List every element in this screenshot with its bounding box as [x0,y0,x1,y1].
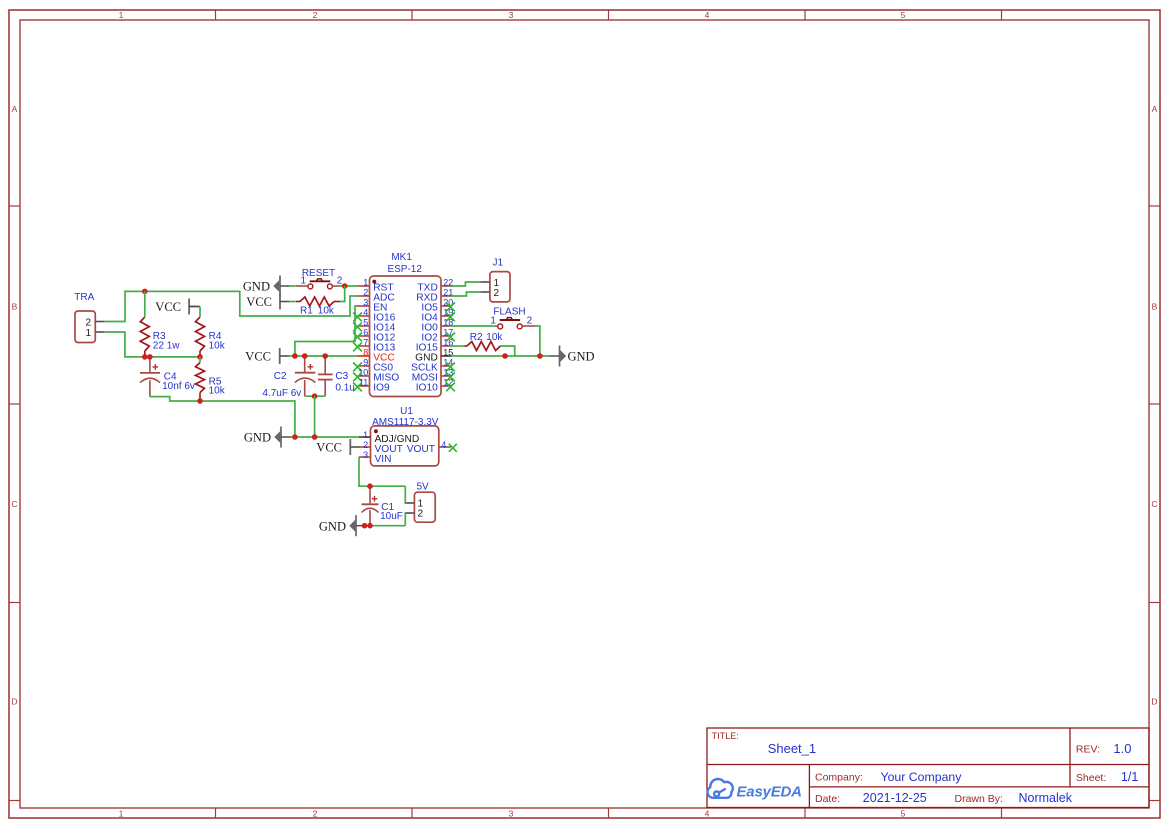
svg-text:4.7uF 6v: 4.7uF 6v [262,388,301,399]
MK1 pin 17 IO2 [421,328,455,344]
svg-text:4: 4 [705,809,710,819]
svg-text:8: 8 [363,348,368,358]
J1 pin 1 [480,278,499,289]
MK1 pin 8 VCC [358,348,395,364]
svg-text:10k: 10k [318,306,335,317]
node junction C2 top [302,353,308,359]
svg-text:2021-12-25: 2021-12-25 [863,791,927,805]
title block divider company/date [809,786,1149,788]
svg-text:1/1: 1/1 [1121,770,1138,784]
svg-text:REV:: REV: [1076,744,1100,756]
svg-text:11: 11 [359,378,368,388]
svg-text:2: 2 [527,315,533,326]
svg-text:A: A [12,104,18,114]
MK1 pin 13 MOSI [412,368,455,384]
TRA pin 1 [85,328,104,339]
U1 pin-1 orientation dot [374,429,378,433]
U1 pin 3 VIN [359,450,391,465]
title block outline [707,728,1149,808]
svg-text:4: 4 [705,10,710,20]
U1 pin 1 ADJ/GND [359,430,419,445]
svg-text:10k: 10k [209,386,226,397]
svg-text:1: 1 [363,278,368,288]
MK1 pin 3 EN [358,298,388,314]
svg-text:B: B [1152,302,1158,312]
svg-text:VOUT: VOUT [407,444,435,455]
svg-text:RESET: RESET [302,268,335,279]
MK1 pin 11 IO9 [353,378,390,394]
svg-text:10nf 6v: 10nf 6v [162,381,195,392]
MK1 pin 22 TXD [417,278,453,294]
svg-text:Normalek: Normalek [1019,791,1073,805]
VCC symbol at U1 VOUT [316,439,360,455]
svg-text:5: 5 [901,809,906,819]
resistor R2 [465,342,501,351]
svg-text:C3: C3 [335,371,348,382]
svg-text:10k: 10k [486,332,503,343]
wire VCC stub to R4 top [189,306,200,308]
MK1 pin 1 RST [358,278,394,294]
MK1 pin 19 IO4 [421,308,455,324]
svg-text:AMS1117-3.3V: AMS1117-3.3V [372,417,439,428]
node junction R3 bottom [142,354,148,360]
svg-text:2: 2 [313,809,318,819]
node junction R4/R5 [197,354,203,360]
MK1 pin 15 GND [415,348,453,364]
svg-text:7: 7 [363,338,368,348]
TRA pin 2 [85,317,104,328]
node junction C2/C3 bottom [312,393,318,399]
node junction FLASH on GND rail [537,353,543,359]
MK1 pin 10 MISO [353,368,399,384]
svg-text:C2: C2 [274,371,287,382]
svg-text:2: 2 [494,288,500,299]
J1 pin 2 [480,288,499,299]
node junction C4 top [147,354,153,360]
ruler ticks bottom [215,808,217,818]
wire C4 bottom to GND net [150,397,295,437]
EasyEDA logo cloud [708,779,733,798]
svg-text:C: C [1151,499,1157,509]
wire R1 right to RESET net [340,286,345,302]
svg-text:3: 3 [363,450,368,460]
node junction R2 on GND rail [502,353,508,359]
resistor R3 [140,317,149,357]
wire C2 bottom to C3 bottom [305,395,326,397]
svg-text:0.1u: 0.1u [335,383,354,394]
node junction GND C1 left [362,523,368,529]
resistor R4 [196,317,205,357]
wire MK1 EN to VCC rail [295,306,358,356]
node junction C1 bottom [367,523,373,529]
wire TRA pin2 to MK1 ADC [105,291,358,321]
wire R4 top lead [199,307,201,317]
5V pin 1 [406,498,424,509]
svg-text:VCC: VCC [155,300,181,314]
resistor R5 [196,363,205,402]
node junction RESET/R1/RST [342,283,348,289]
title block divider right column [1069,728,1071,787]
svg-text:A: A [1152,104,1158,114]
MK1 pin 18 IO0 [421,318,453,334]
svg-text:9: 9 [363,358,368,368]
svg-text:5: 5 [363,318,368,328]
wire MK1 IO0 to FLASH pin1 [451,325,495,327]
node junction GND rail right [312,434,318,440]
svg-text:1: 1 [363,430,368,440]
wire R4/R5 junction lead [199,357,201,363]
MK1 pin 16 IO15 [416,338,454,354]
svg-text:2: 2 [313,10,318,20]
svg-text:GND: GND [319,519,346,533]
svg-text:C: C [11,499,17,509]
svg-text:R2: R2 [470,332,483,343]
svg-text:1: 1 [300,275,306,286]
wire MK1 RXD to J1 pin2 [451,292,481,296]
wire C1 net to 5V pin1 [404,486,406,503]
resistor R1 [296,297,340,306]
wire GND rail under C1 [365,525,406,527]
svg-text:1.0: 1.0 [1113,741,1131,756]
svg-text:2: 2 [418,508,424,519]
node junction C3 top [322,353,328,359]
svg-text:4: 4 [363,308,368,318]
svg-text:3: 3 [509,809,514,819]
svg-text:3: 3 [509,10,514,20]
connector J1 body [490,272,510,302]
ruler ticks right [1149,205,1160,207]
wire TRA pin1 to divider rail [105,332,200,357]
connector TRA body [75,311,95,343]
svg-text:10uF: 10uF [380,511,403,522]
U1 pin 4 VOUT [407,440,457,455]
ruler ticks left [9,205,20,207]
wire MK1 TXD to J1 pin1 [451,282,481,286]
node junction C1 top [367,483,373,489]
MK1 pin 5 IO14 [353,318,396,334]
5V pin 2 [406,508,424,519]
svg-text:VCC: VCC [316,441,342,455]
wire FLASH pin2 down to GND rail [535,326,540,356]
svg-text:VCC: VCC [245,350,271,364]
wire VCC to R1 [289,301,296,303]
svg-text:3: 3 [363,298,368,308]
svg-text:1: 1 [85,328,91,339]
svg-text:U1: U1 [400,406,413,417]
svg-text:Your Company: Your Company [881,770,963,784]
MK1 pin 14 SCLK [411,358,455,374]
svg-text:Sheet_1: Sheet_1 [768,741,816,756]
connector 5V body [414,492,435,522]
svg-text:4: 4 [441,440,446,450]
svg-text:10: 10 [358,368,368,378]
capacitor C2 [295,356,315,396]
svg-text:22 1w: 22 1w [153,341,180,352]
wire RESET pin2 to MK1 RST [339,285,358,287]
svg-text:VIN: VIN [375,454,392,465]
wire VCC stub to U1 VOUT [358,446,360,448]
svg-text:Drawn By:: Drawn By: [955,793,1003,805]
MK1 pin 9 CS0 [353,358,393,374]
svg-text:IO10: IO10 [416,383,438,394]
title block divider logo cell [808,765,810,808]
capacitor C4 [140,357,160,397]
svg-text:GND: GND [244,431,271,445]
svg-text:FLASH: FLASH [493,307,525,318]
wire U1 VIN to C1 top [359,457,405,486]
svg-text:5: 5 [901,10,906,20]
svg-text:GND: GND [568,350,595,364]
ground symbol at C1 [319,515,365,536]
VCC symbol at VCC rail [245,348,289,364]
svg-text:2: 2 [337,275,343,286]
node junction R5 bottom [197,398,203,404]
svg-text:TRA: TRA [74,292,94,303]
svg-text:2: 2 [85,317,91,328]
svg-text:VCC: VCC [246,295,272,309]
node junction GND rail left [292,434,298,440]
wire MK1 IO15 to R2 [450,345,465,347]
svg-text:TITLE:: TITLE: [712,731,739,741]
VCC symbol at R4 [155,299,198,315]
MK1 pin 2 ADC [358,288,395,304]
svg-text:GND: GND [243,280,270,294]
wire MK1 GND pin15 to GND symbol [451,355,550,357]
ground symbol at RESET [243,276,289,297]
wire R2 right to GND rail [500,346,514,356]
switch RESET button [296,275,343,289]
VCC symbol at R1 [246,294,289,310]
MK1 pin 7 IO13 [353,338,396,354]
svg-text:Date:: Date: [815,793,840,805]
U1 pin 2 VOUT [359,440,403,455]
svg-text:ESP-12: ESP-12 [387,264,422,275]
ruler ticks top [215,10,217,20]
wire VCC rail to MK1 VCC pin8 [288,355,358,357]
svg-text:2: 2 [363,288,368,298]
svg-text:1: 1 [119,809,124,819]
svg-text:B: B [12,302,18,312]
svg-text:R1: R1 [300,306,313,317]
svg-text:6: 6 [363,328,368,338]
MK1 pin 12 IO10 [416,378,455,394]
switch FLASH button [490,315,535,329]
MK1 pin 21 RXD [416,288,453,304]
capacitor C1 [362,486,379,526]
svg-text:1: 1 [119,10,124,20]
svg-text:D: D [11,697,17,707]
wire R3 top branch [144,291,146,317]
MK1 pin 6 IO12 [353,328,396,344]
svg-text:J1: J1 [493,258,504,269]
title block divider below title row [707,764,1149,766]
ground symbol at U1 ADJ/GND [244,427,291,448]
node junction EN branch on VCC rail [292,353,298,359]
wire C2/C3 bottom to GND rail [314,396,316,437]
svg-text:IO9: IO9 [373,383,390,394]
MK1 pin 20 IO5 [421,298,455,314]
svg-text:1: 1 [490,315,496,326]
wire GND to 5V pin2 [404,513,406,526]
node junction TRA/R3 top [142,289,148,295]
ground symbol right of FLASH [550,346,595,367]
svg-text:10k: 10k [209,341,226,352]
svg-text:Company:: Company: [815,772,863,784]
op-amp U1 AMS1117-3.3V body [371,426,439,466]
svg-text:2: 2 [363,440,368,450]
op-amp U MK1 ESP-12 chip body [370,276,442,397]
wire GND to RESET pin1 [289,285,296,287]
MK1 pin 4 IO16 [353,308,396,324]
svg-text:5V: 5V [416,482,429,493]
svg-text:EasyEDA: EasyEDA [737,784,802,801]
svg-text:Sheet:: Sheet: [1076,772,1106,784]
MK1 pin-1 orientation dot [372,280,376,284]
wire GND rail to U1 ADJ/GND [291,436,360,438]
svg-text:D: D [1151,697,1157,707]
svg-text:MK1: MK1 [391,252,412,263]
capacitor C3 [318,356,333,396]
